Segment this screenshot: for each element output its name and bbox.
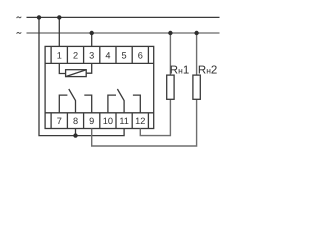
svg-text:7: 7 bbox=[57, 116, 62, 126]
svg-text:2: 2 bbox=[73, 50, 78, 60]
svg-text:3: 3 bbox=[89, 50, 94, 60]
svg-text:4: 4 bbox=[105, 50, 110, 60]
svg-text:11: 11 bbox=[119, 116, 129, 126]
svg-text:9: 9 bbox=[89, 116, 94, 126]
svg-text:5: 5 bbox=[122, 50, 127, 60]
svg-text:6: 6 bbox=[138, 50, 143, 60]
svg-text:10: 10 bbox=[103, 116, 113, 126]
svg-text:1: 1 bbox=[57, 50, 62, 60]
svg-text:8: 8 bbox=[73, 116, 78, 126]
svg-text:12: 12 bbox=[135, 116, 145, 126]
svg-text:Rн2: Rн2 bbox=[198, 64, 217, 76]
svg-text:Rн1: Rн1 bbox=[170, 64, 189, 76]
